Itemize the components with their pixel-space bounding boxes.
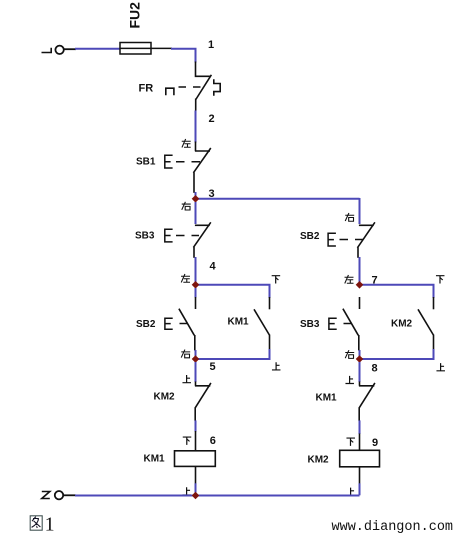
node 3 junction — [192, 195, 200, 203]
wire coil to N rail — [195, 466, 197, 484]
char shang above N rail right — [346, 488, 355, 496]
thermal relay contact FR — [196, 62, 221, 112]
SB1 dashed link — [176, 161, 200, 163]
contactor contact KM1 (NO aux) — [254, 297, 270, 350]
wire node 3 to SB3 — [195, 202, 197, 224]
node 4 junction — [192, 281, 200, 289]
SB3 dashed link — [176, 235, 199, 237]
wire FR to SB1 — [195, 111, 197, 143]
lead to coil — [195, 431, 197, 451]
svg-text:1: 1 — [45, 513, 55, 535]
wire node 4 to KM1 branch — [196, 285, 270, 298]
char xia above KM1 aux — [272, 276, 281, 284]
char you above SB2 right — [345, 213, 354, 221]
char shang above N rail — [182, 487, 191, 495]
svg-text:KM2: KM2 — [391, 319, 413, 330]
SB2 dashed link — [180, 323, 188, 325]
wire node 4 down — [195, 288, 197, 298]
svg-text:6: 6 — [210, 435, 216, 447]
svg-text:2: 2 — [209, 113, 215, 125]
terminal L — [42, 46, 64, 54]
char you above node 8 — [345, 350, 354, 358]
wire node 7 to KM2 branch — [360, 285, 434, 298]
SB3 right dashed link — [344, 323, 352, 325]
contactor contact KM2 (NO aux) — [418, 297, 434, 350]
fuse FU2 — [120, 43, 172, 55]
wire to node 7 — [359, 257, 361, 285]
FR heater element — [166, 88, 174, 95]
svg-text:8: 8 — [372, 363, 378, 375]
SB2 actuator — [165, 318, 173, 329]
SB3 right actuator — [329, 318, 337, 329]
wire SB3 right to node 8 — [359, 350, 361, 362]
wire node 8 down — [359, 362, 361, 382]
char xia above KM1 coil — [183, 437, 192, 445]
svg-text:4: 4 — [210, 261, 217, 273]
FR dashed link — [179, 86, 202, 88]
wire node 3 to right branch — [196, 198, 360, 200]
char xia above KM2 coil — [346, 438, 355, 446]
right branch: wire down from node 3 row — [359, 198, 361, 224]
node at KM1 coil on N rail — [192, 492, 200, 500]
wire KM1 to node 9 — [359, 420, 361, 434]
caption figure 1 — [30, 516, 42, 530]
svg-text:SB3: SB3 — [300, 319, 320, 330]
svg-text:www.diangon.com: www.diangon.com — [332, 520, 454, 535]
terminal N — [42, 491, 63, 499]
N rail — [75, 495, 360, 497]
svg-text:SB2: SB2 — [136, 319, 156, 330]
node 5 junction — [192, 355, 200, 363]
SB2 right actuator — [328, 233, 336, 246]
wire fuse to node 1 corner — [171, 49, 196, 63]
svg-text:KM2: KM2 — [154, 392, 176, 403]
wire SB1 to node 3 — [195, 192, 197, 199]
char zuo above node 4 — [181, 274, 190, 282]
SB3 actuator — [165, 229, 173, 242]
node 8 junction — [356, 355, 364, 363]
svg-text:KM1: KM1 — [316, 393, 338, 404]
wire KM2 aux to node 8 — [360, 349, 434, 359]
wire KM2 to node 6 — [195, 420, 197, 431]
interlock contact KM1 (NC, right) — [359, 382, 375, 422]
pushbutton SB3 (NO, right) — [343, 297, 360, 351]
wire node 5 down — [195, 362, 197, 382]
node 7 junction — [356, 281, 364, 289]
SB1 actuator — [165, 155, 173, 168]
char shang below KM1 aux — [272, 362, 281, 370]
coil KM2 — [340, 450, 380, 467]
svg-text:KM1: KM1 — [228, 317, 250, 328]
wire L to fuse — [64, 48, 76, 50]
svg-text:KM1: KM1 — [144, 454, 166, 465]
svg-text:SB2: SB2 — [300, 231, 320, 242]
wire SB2 to node 5 — [195, 350, 197, 362]
char shang below KM2 aux — [436, 363, 445, 371]
lead to KM2 coil — [359, 434, 361, 452]
svg-text:SB1: SB1 — [136, 157, 156, 168]
svg-text:KM2: KM2 — [308, 455, 330, 466]
char zuo above node 7 — [345, 275, 354, 283]
char zuo above node 3 — [182, 139, 191, 147]
char you below node 3 — [182, 202, 191, 210]
svg-text:SB3: SB3 — [135, 231, 155, 242]
pushbutton SB1 (NC) — [193, 142, 210, 193]
pushbutton SB2 (NO, left) — [179, 297, 196, 351]
coil KM1 — [175, 451, 216, 467]
svg-text:1: 1 — [208, 39, 214, 51]
char xia above KM2 aux — [436, 276, 445, 284]
interlock contact KM2 (NC) — [195, 382, 211, 422]
svg-text:5: 5 — [210, 361, 216, 373]
char you above node 5 — [181, 350, 190, 358]
char shang above KM2 interlock — [182, 375, 191, 383]
char shang above KM1 interlock — [345, 376, 354, 384]
svg-text:FU2: FU2 — [127, 2, 143, 29]
svg-text:9: 9 — [372, 437, 378, 449]
SB2 right dashed link — [340, 239, 364, 241]
wire SB3 to node 4 — [195, 257, 197, 285]
wire N terminal — [63, 494, 76, 496]
wire KM1 aux to node 5 — [196, 349, 270, 359]
wire KM2 coil to N rail — [359, 467, 361, 484]
pushbutton SB2 (NC, right) — [357, 222, 375, 257]
pushbutton SB3 (NC, left) — [193, 222, 210, 257]
svg-text:FR: FR — [139, 83, 154, 95]
